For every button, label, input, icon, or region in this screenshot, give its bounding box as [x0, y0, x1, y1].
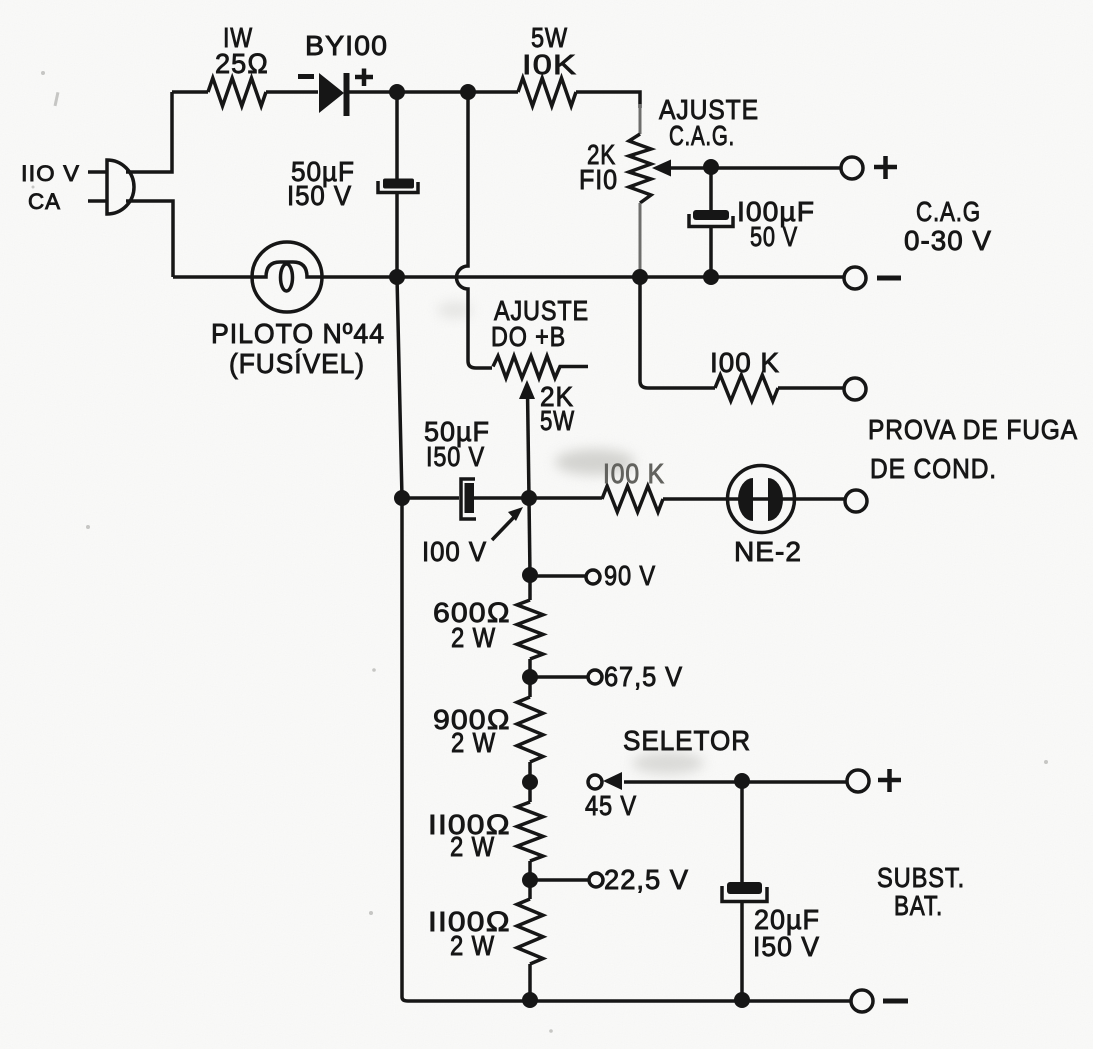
svg-text:C.A.G.: C.A.G.	[669, 120, 735, 151]
svg-text:5W: 5W	[540, 405, 575, 436]
svg-text:PROVA DE FUGA: PROVA DE FUGA	[868, 414, 1078, 445]
svg-text:BYI00: BYI00	[305, 30, 388, 61]
svg-text:0-30 V: 0-30 V	[904, 225, 992, 256]
svg-text:I50 V: I50 V	[287, 180, 352, 211]
svg-text:2 W: 2 W	[450, 831, 495, 862]
svg-text:C.A.G: C.A.G	[916, 196, 981, 227]
svg-text:IIO V: IIO V	[21, 161, 80, 186]
svg-text:2 W: 2 W	[450, 930, 495, 961]
svg-text:I00 K: I00 K	[710, 347, 780, 378]
svg-text:I50 V: I50 V	[426, 441, 485, 472]
svg-text:67,5 V: 67,5 V	[604, 661, 683, 692]
svg-text:DO +B: DO +B	[491, 321, 566, 352]
svg-text:(FUSÍVEL): (FUSÍVEL)	[229, 348, 365, 379]
svg-text:FI0: FI0	[579, 164, 618, 195]
svg-text:DE COND.: DE COND.	[870, 453, 997, 484]
svg-text:CA: CA	[28, 189, 61, 214]
svg-text:PILOTO Nº44: PILOTO Nº44	[211, 318, 385, 349]
svg-text:I0K: I0K	[522, 49, 577, 80]
svg-text:25Ω: 25Ω	[215, 48, 269, 79]
svg-text:NE-2: NE-2	[734, 536, 802, 567]
svg-text:I00 V: I00 V	[422, 536, 487, 567]
svg-text:90 V: 90 V	[604, 560, 656, 591]
svg-text:SELETOR: SELETOR	[623, 725, 751, 756]
svg-text:2 W: 2 W	[451, 622, 496, 653]
svg-text:BAT.: BAT.	[894, 890, 943, 921]
svg-text:45 V: 45 V	[585, 790, 637, 821]
svg-text:22,5 V: 22,5 V	[604, 864, 689, 895]
svg-text:2 W: 2 W	[451, 727, 496, 758]
svg-text:SUBST.: SUBST.	[877, 862, 965, 893]
svg-text:50 V: 50 V	[750, 221, 798, 252]
svg-text:I50 V: I50 V	[753, 931, 820, 962]
svg-text:I00 K: I00 K	[603, 458, 665, 489]
